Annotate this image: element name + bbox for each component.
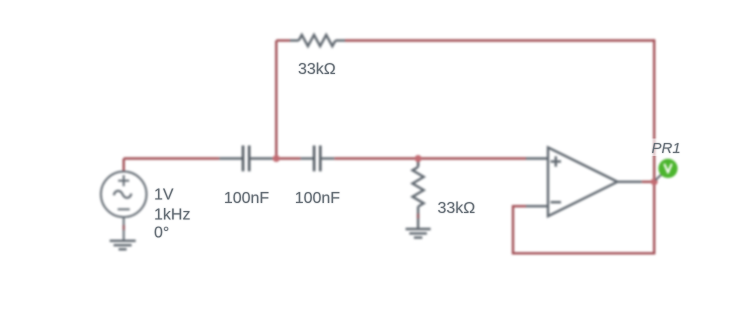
wire top-left to resistor R1 (red): [276, 39, 290, 41]
svg-text:PR1: PR1: [652, 140, 681, 157]
wire tick at R2 ground pin (red): [417, 214, 419, 219]
probe PR1 circle: [658, 159, 677, 178]
ground (source): [110, 241, 136, 250]
resistor R1 33k (feedback, horizontal): [290, 35, 345, 46]
wire tick at source ground pin (red): [122, 225, 124, 230]
wire from C2 to op-amp + input (red): [334, 157, 526, 159]
wire feedback bottom loop (red): output down, left, up to - input: [513, 182, 654, 254]
node junction at shunt resistor: [415, 155, 422, 162]
op-amp U1: [526, 147, 642, 216]
wire main input net (red) from source to cap C1: [124, 157, 220, 159]
resistor R2 33k (shunt, vertical): [413, 162, 424, 229]
minus mark: [551, 201, 561, 203]
svg-text:1V: 1V: [154, 187, 174, 204]
capacitor C1 100nF: [219, 146, 272, 172]
wire source stub vertical: [122, 159, 124, 173]
svg-text:33kΩ: 33kΩ: [298, 61, 336, 78]
wire stub to resistor R2: [417, 159, 419, 167]
node junction between C1 and C2: [273, 155, 280, 162]
svg-text:33kΩ: 33kΩ: [438, 200, 476, 217]
plus mark: [551, 160, 561, 162]
wire output segment (red): [642, 181, 654, 183]
node output junction: [651, 178, 658, 185]
wire between C1 and C2 (red): [272, 157, 300, 159]
wire feedback riser (red) from cap junction up to R1: [275, 41, 277, 159]
svg-text:1kHz: 1kHz: [154, 207, 190, 224]
svg-text:100nF: 100nF: [295, 190, 341, 207]
label PR1 background: [649, 139, 683, 157]
ground (R2): [406, 229, 431, 238]
pin + (non-inverting input): [526, 157, 548, 159]
wire top net (red) from R1 to right edge: [345, 39, 654, 41]
svg-text:0°: 0°: [154, 225, 169, 242]
pin output: [618, 181, 642, 183]
capacitor C2 100nF: [301, 146, 335, 172]
probe PR1 V glyph: [665, 165, 672, 173]
AC voltage source V1: [101, 172, 147, 241]
pin - (inverting input): [526, 205, 548, 207]
probe PR1 pointer line: [656, 174, 663, 181]
svg-text:100nF: 100nF: [224, 190, 270, 207]
wire right riser (red) down to output node: [653, 39, 655, 182]
